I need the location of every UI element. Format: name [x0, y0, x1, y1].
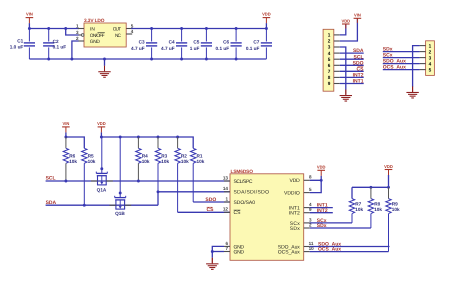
- wire input top rail: [29, 28, 79, 30]
- svg-text:8: 8: [309, 175, 312, 180]
- svg-text:GND: GND: [234, 249, 245, 255]
- junction C3 top: [150, 27, 153, 30]
- pin 2 GND stub: [76, 36, 84, 41]
- wire/net SCL (to pin 13): [46, 176, 230, 182]
- pin 3 SCx: [290, 217, 312, 227]
- svg-text:VIN: VIN: [26, 12, 33, 17]
- svg-text:2: 2: [328, 39, 331, 44]
- svg-text:2: 2: [76, 36, 79, 41]
- svg-text:VDD: VDD: [384, 164, 393, 169]
- wire/net SDO_Aux (pin 4): [383, 59, 420, 65]
- svg-text:C7: C7: [253, 39, 259, 44]
- svg-text:VDD: VDD: [317, 165, 326, 170]
- wire/net INT1: [310, 203, 333, 209]
- capacitor C1: [10, 29, 35, 60]
- pin 1 SDO/SA0: [224, 196, 255, 206]
- svg-text:8: 8: [328, 75, 331, 80]
- wire pin2 to VIN: [340, 18, 358, 41]
- svg-text:5: 5: [131, 23, 134, 28]
- junction C6 bottom: [235, 58, 238, 61]
- svg-text:VIN: VIN: [354, 13, 361, 18]
- svg-text:1: 1: [429, 43, 432, 48]
- pin 14 SDA/SDI/SDO: [223, 186, 269, 196]
- pin 4 INT1: [289, 202, 312, 212]
- svg-text:INT1: INT1: [353, 79, 364, 85]
- svg-text:C2: C2: [53, 39, 59, 44]
- pin 4: [328, 51, 340, 56]
- junction R5/SDA: [83, 204, 86, 207]
- junction R4/SCL: [137, 180, 140, 183]
- junction VIN/C1: [28, 27, 31, 30]
- wire GND pins to ground: [212, 246, 224, 257]
- regulator U2 3.3V LDO: [84, 18, 126, 47]
- svg-text:9: 9: [309, 207, 312, 212]
- svg-text:OCS_Aux: OCS_Aux: [318, 247, 341, 253]
- svg-text:3: 3: [429, 55, 432, 60]
- pin 2: [420, 49, 432, 54]
- wire aux pull-up rail: [352, 186, 389, 188]
- svg-text:Q1A: Q1A: [97, 188, 107, 193]
- junction Q1B gate riser: [119, 136, 122, 139]
- pin 7: [328, 69, 340, 74]
- svg-text:GND: GND: [90, 39, 101, 45]
- power symbol VIN (connector): [354, 13, 362, 23]
- wire/net INT1 (pin 9): [340, 79, 364, 85]
- capacitor C4: [161, 29, 187, 60]
- junction R9/VDD: [387, 186, 390, 189]
- svg-text:C4: C4: [169, 39, 175, 44]
- resistor R9: [386, 187, 400, 251]
- svg-text:INT2: INT2: [353, 73, 364, 79]
- node CS label: [207, 207, 215, 213]
- wire SDA riser to pin 14: [158, 192, 230, 205]
- pin 12 CS: [223, 207, 241, 217]
- pin 5 VDDIO: [284, 187, 312, 197]
- resistor R5: [82, 148, 96, 205]
- svg-text:4: 4: [328, 51, 331, 56]
- resistor R1: [191, 148, 205, 202]
- resistor R6: [63, 137, 77, 181]
- svg-text:R1: R1: [197, 154, 203, 159]
- svg-text:10k: 10k: [88, 159, 96, 164]
- svg-text:10k: 10k: [142, 159, 150, 164]
- capacitor C7: [246, 29, 272, 60]
- svg-text:0.1 uF: 0.1 uF: [246, 46, 260, 51]
- ground (IC): [206, 258, 218, 270]
- junction C7/VDD: [265, 27, 268, 30]
- svg-text:R6: R6: [69, 154, 75, 159]
- op-amp U1 LSM6DSO body: [230, 169, 304, 260]
- ground (connector J1): [340, 90, 352, 102]
- svg-text:C6: C6: [223, 39, 229, 44]
- wire/net SCx to R7: [310, 218, 352, 224]
- wire ON/OFF to input rail: [66, 29, 79, 36]
- connector J2 body: [426, 41, 435, 76]
- pin 4 NC stub: [126, 29, 134, 34]
- svg-text:CS: CS: [207, 207, 215, 213]
- wire pin3 to ground: [340, 47, 346, 90]
- svg-text:4: 4: [429, 61, 432, 66]
- svg-text:R5: R5: [88, 154, 94, 159]
- pin 1 IN stub: [76, 23, 84, 28]
- power symbol VDD (top): [262, 12, 271, 29]
- svg-text:OCS_Aux: OCS_Aux: [383, 65, 406, 71]
- power symbol VDD (aux): [384, 164, 393, 188]
- svg-text:R9: R9: [392, 202, 398, 207]
- svg-text:IN: IN: [90, 27, 96, 33]
- svg-text:12: 12: [223, 207, 229, 212]
- svg-text:3: 3: [76, 30, 79, 35]
- junction C4 bottom: [180, 58, 183, 61]
- junction R8 top: [369, 186, 372, 189]
- svg-text:1.0 uF: 1.0 uF: [10, 45, 24, 50]
- capacitor C6: [216, 29, 242, 60]
- junction R6/SCL: [64, 180, 67, 183]
- svg-text:OCS_Aux: OCS_Aux: [278, 250, 301, 256]
- pin 9: [328, 81, 340, 86]
- svg-text:1 uF: 1 uF: [190, 46, 200, 51]
- pin 1: [328, 33, 340, 38]
- wire VDD pull-up rail: [101, 137, 193, 148]
- wire SDO from R1 to pin 1: [193, 201, 230, 203]
- svg-text:R8: R8: [374, 202, 380, 207]
- wire/net SDx to R8: [310, 223, 371, 229]
- resistor R3: [155, 137, 169, 192]
- svg-text:SDx: SDx: [290, 226, 301, 232]
- svg-text:SCL/SPC: SCL/SPC: [234, 179, 253, 185]
- svg-text:6: 6: [328, 63, 331, 68]
- svg-text:7: 7: [225, 246, 228, 251]
- svg-text:Q1B: Q1B: [115, 211, 125, 216]
- pin 6 GND: [224, 241, 244, 251]
- svg-text:NC: NC: [115, 33, 122, 39]
- pin 5 OUT stub: [126, 23, 134, 28]
- svg-text:10k: 10k: [181, 159, 189, 164]
- svg-text:10: 10: [309, 246, 315, 251]
- junction C5 top: [205, 27, 208, 30]
- junction C2 top: [47, 27, 50, 30]
- svg-text:SDx: SDx: [317, 223, 327, 229]
- svg-text:10k: 10k: [69, 159, 77, 164]
- svg-text:ON/OFF: ON/OFF: [90, 33, 105, 39]
- svg-text:2: 2: [309, 222, 312, 227]
- pin 10 OCS_Aux: [278, 246, 314, 256]
- svg-text:5: 5: [328, 57, 331, 62]
- svg-text:10k: 10k: [374, 207, 382, 212]
- pin 2 SDx: [290, 222, 312, 232]
- svg-text:1: 1: [225, 196, 228, 201]
- svg-text:C5: C5: [193, 39, 199, 44]
- pin 3: [328, 45, 340, 50]
- wire/net SDO_Aux: [310, 242, 390, 248]
- svg-text:CS: CS: [234, 210, 242, 216]
- ground (connector J2): [406, 86, 418, 98]
- junction VIN/R6: [64, 136, 67, 139]
- svg-text:VDD: VDD: [262, 12, 271, 17]
- svg-text:4: 4: [131, 29, 134, 34]
- svg-text:CS: CS: [357, 66, 365, 72]
- svg-text:10k: 10k: [161, 159, 169, 164]
- power symbol VDD (bottom-left): [97, 121, 106, 137]
- svg-text:INT2: INT2: [317, 208, 328, 214]
- junction R3/SDA riser: [157, 190, 160, 193]
- wire/net INT2 (pin 8): [340, 73, 364, 79]
- junction R4 top: [137, 136, 140, 139]
- wire pin1 to ground: [413, 46, 420, 87]
- wire LDO GND down to rail: [72, 41, 79, 59]
- pin 6: [328, 63, 340, 68]
- svg-text:OUT: OUT: [113, 27, 121, 33]
- resistor R2: [175, 137, 189, 212]
- pin 8 VDD: [290, 175, 313, 185]
- junction GND pins: [211, 250, 214, 253]
- wire/net OCS_Aux to R9: [310, 247, 389, 253]
- pin 2: [328, 39, 340, 44]
- pin 3 ON/OFF stub + bubble: [76, 30, 84, 37]
- wire/net SDx (pin 2): [383, 47, 420, 53]
- wire/net SCx (pin 3): [383, 53, 420, 59]
- wire/net CS (pin 7): [340, 66, 364, 72]
- svg-text:0.1 uF: 0.1 uF: [216, 46, 230, 51]
- pin 5: [328, 57, 340, 62]
- svg-text:INT2: INT2: [289, 211, 300, 217]
- svg-text:10k: 10k: [392, 207, 400, 212]
- ground (top section): [98, 59, 110, 77]
- svg-text:VIN: VIN: [62, 121, 69, 126]
- svg-text:7: 7: [328, 69, 331, 74]
- svg-text:5: 5: [309, 187, 312, 192]
- svg-text:SDO: SDO: [205, 197, 216, 203]
- connector J1 body: [323, 29, 334, 91]
- power symbol VIN (bottom-left): [62, 121, 70, 137]
- pin 11 SDO_Aux: [278, 241, 314, 251]
- svg-text:5: 5: [429, 67, 432, 72]
- svg-text:C1: C1: [17, 39, 23, 44]
- svg-text:10k: 10k: [355, 207, 363, 212]
- pin 1: [420, 43, 432, 48]
- capacitor C5: [190, 29, 212, 60]
- power symbol VIN (top-left): [26, 12, 34, 29]
- pin 3: [420, 55, 432, 60]
- wire VDD/VDDIO to power: [310, 180, 322, 192]
- wire/net SDO (pin 6): [340, 60, 364, 66]
- svg-text:C3: C3: [139, 39, 145, 44]
- capacitor C2: [43, 29, 66, 60]
- pin 5: [420, 67, 432, 72]
- svg-text:1: 1: [76, 23, 79, 28]
- svg-text:SCL: SCL: [354, 54, 364, 60]
- svg-text:13: 13: [223, 175, 229, 180]
- svg-text:VDD: VDD: [97, 121, 106, 126]
- svg-text:14: 14: [223, 186, 229, 191]
- svg-text:SDO/SA0: SDO/SA0: [234, 200, 256, 206]
- power symbol VDD (IC): [317, 165, 326, 181]
- junction VDD/Q1A gate: [100, 136, 103, 139]
- junction C2 bottom: [47, 58, 50, 61]
- wire/net SDA (external): [46, 200, 158, 206]
- svg-text:SDA/SDI/SDO: SDA/SDI/SDO: [234, 190, 270, 196]
- transistor Q1A: [91, 137, 113, 193]
- svg-text:SDA: SDA: [353, 48, 364, 54]
- svg-text:VDDIO: VDDIO: [284, 191, 300, 197]
- junction ON/OFF riser: [64, 27, 67, 30]
- junction R2 top: [176, 136, 179, 139]
- wire pin 7 to GND junction: [212, 251, 224, 253]
- wire VIN pull-up rail: [66, 137, 84, 148]
- pin 9 INT2: [289, 207, 312, 217]
- wire/net OCS_Aux (pin 5): [383, 65, 420, 71]
- junction C4 top: [180, 27, 183, 30]
- svg-text:R2: R2: [181, 154, 187, 159]
- pin 13 SCL/SPC: [223, 175, 253, 185]
- wire bottom ground rail: [29, 58, 266, 60]
- junction LDO GND: [70, 58, 73, 61]
- wire pin1 to VDD: [340, 24, 346, 35]
- svg-text:10k: 10k: [197, 159, 205, 164]
- wire output rail: [131, 28, 266, 30]
- svg-text:VDD: VDD: [341, 18, 350, 23]
- resistor R8: [368, 187, 382, 228]
- svg-text:R4: R4: [142, 154, 148, 159]
- wire/net SDA (pin 4): [340, 48, 364, 54]
- junction C5 bottom: [205, 58, 208, 61]
- svg-text:VDD: VDD: [290, 178, 301, 184]
- svg-text:4.7 uF: 4.7 uF: [131, 46, 145, 51]
- pin 8: [328, 75, 340, 80]
- junction C3 bottom: [150, 58, 153, 61]
- pin 4: [420, 61, 432, 66]
- wire/net INT2: [310, 208, 333, 214]
- junction C6 top: [235, 27, 238, 30]
- svg-text:3: 3: [328, 45, 331, 50]
- resistor R4: [136, 137, 150, 181]
- svg-text:4.7 uF: 4.7 uF: [161, 46, 175, 51]
- junction R3 top: [157, 136, 160, 139]
- svg-text:R3: R3: [161, 154, 167, 159]
- power symbol VDD (connector): [341, 18, 350, 28]
- wire CS from R2 to pin 12: [178, 211, 230, 213]
- wire/net SCL (pin 5): [340, 54, 364, 60]
- svg-text:0.1 uF: 0.1 uF: [53, 44, 67, 49]
- svg-text:R7: R7: [355, 202, 361, 207]
- transistor Q1B: [109, 137, 131, 216]
- pin 7 GND: [224, 246, 244, 256]
- junction ground stem: [103, 58, 106, 61]
- capacitor C3: [131, 29, 157, 60]
- junction VDD stem: [320, 179, 323, 182]
- svg-text:1: 1: [328, 33, 331, 38]
- svg-text:2: 2: [429, 49, 432, 54]
- svg-text:9: 9: [328, 81, 331, 86]
- resistor R7: [349, 187, 363, 223]
